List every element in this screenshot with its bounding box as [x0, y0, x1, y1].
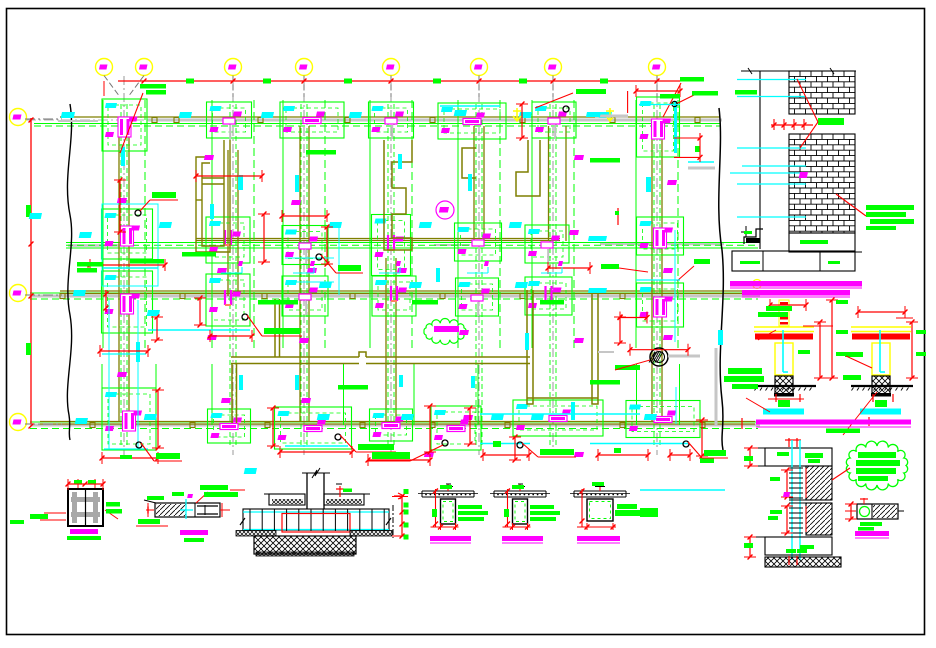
row grid green lines — [30, 124, 758, 429]
footing A-2 — [102, 209, 153, 259]
footing B-1 — [207, 102, 252, 139]
cyan wide bars right of axis F — [588, 236, 607, 293]
right break line wavy — [719, 108, 724, 450]
detail corte column title — [67, 529, 101, 540]
footing section ground hatch strips — [236, 531, 392, 537]
cyan text marks scattered — [29, 110, 657, 474]
beam detail V-P — [570, 482, 658, 530]
footing C-4 — [275, 407, 352, 449]
detail corte column green texts — [10, 502, 122, 524]
detail corte column red dims — [40, 479, 118, 520]
cyan horizontal lines in plan — [103, 106, 725, 490]
stirrup marks below row2 columns — [221, 261, 563, 273]
footing F-1 — [532, 102, 576, 139]
brick block upper — [789, 71, 855, 114]
footing B-4 — [208, 409, 251, 443]
beam detail V-P title — [577, 536, 620, 543]
row wall olive lines — [40, 117, 755, 424]
cimiento A green texts — [724, 300, 848, 389]
footing A-4 — [102, 388, 156, 450]
corte crosshatch strip — [765, 557, 841, 567]
cimiento B leader to stem — [846, 356, 872, 368]
brick right green text block — [866, 205, 914, 230]
footing D-1 — [369, 102, 414, 139]
detail beam green texts — [138, 485, 238, 524]
yellow anchor marks — [513, 108, 614, 121]
corte wall divider lines — [765, 466, 832, 503]
green bar left of corte title — [149, 496, 164, 500]
footing section right red dim — [392, 494, 408, 538]
footing C-2 — [282, 226, 328, 265]
brick block lower — [789, 134, 855, 233]
footing section beam red tick — [336, 484, 352, 497]
brick footing step left — [741, 226, 763, 244]
wall channel between rows 1-2 at axis F — [516, 140, 540, 196]
footing E-1 — [438, 103, 506, 139]
grey segment and cyan bar near row1 right — [586, 112, 715, 168]
footing E-4 — [431, 406, 481, 450]
revision cloud with label in plan — [424, 319, 466, 345]
column wall olive vertical lines — [119, 126, 662, 422]
corte ladder reinforcement — [789, 440, 803, 560]
corte red dims left — [744, 446, 806, 560]
footing G-4 — [626, 401, 700, 438]
cimiento B green texts — [843, 330, 926, 380]
corte hatched block upper — [806, 466, 832, 500]
corte bottom slab — [748, 537, 832, 555]
footing B-3f — [206, 274, 250, 326]
brick base slab — [732, 251, 862, 271]
brick detail title line2 — [742, 290, 850, 297]
wall channel between rows 1-2 at axis E — [462, 148, 476, 178]
column symbol donut — [649, 348, 700, 366]
footing section left beam — [264, 494, 305, 505]
detail beam horizontal — [144, 494, 220, 519]
footing E-3 — [456, 278, 499, 316]
brick detail title line1 — [730, 280, 862, 289]
cimiento detail B — [851, 327, 913, 415]
green text bars scattered in plan — [77, 77, 757, 390]
footing B-2 — [206, 217, 250, 263]
olive wall end caps on row lines — [60, 118, 705, 428]
left break line wavy — [67, 104, 71, 440]
wall channel between rows 1-2 at axis B — [196, 140, 230, 252]
brick cyan leader lines — [730, 80, 806, 218]
corte-2 small detail — [845, 498, 904, 531]
cyan and grey marks left of row1 — [58, 112, 98, 121]
beam detail V-A — [418, 484, 488, 530]
cimiento title long magenta — [756, 420, 911, 434]
footing A-1 — [102, 99, 147, 151]
footing section footing block — [254, 536, 356, 556]
footing A-3 — [102, 271, 153, 333]
footing D-4 — [370, 409, 413, 441]
cloud leader red — [832, 468, 850, 480]
detail corte column square — [68, 489, 103, 526]
column axis green lines — [103, 100, 678, 445]
red dims right side row1 — [516, 83, 702, 162]
detail beam red dims — [136, 490, 245, 526]
magenta mark on brick — [799, 172, 808, 178]
footing C-1 — [280, 102, 344, 138]
green verticals rows3-4 gap — [102, 364, 680, 425]
footing E-2 — [455, 223, 502, 261]
top red dimension line — [104, 79, 680, 97]
footing G-2 — [637, 217, 684, 255]
red arrow left of V-A — [394, 493, 404, 499]
corte-2 magenta title — [855, 531, 889, 538]
revision cloud bottom right — [846, 441, 907, 490]
detail beam title — [180, 530, 208, 542]
cimiento B red dims — [843, 306, 918, 435]
footing G-3 — [637, 283, 684, 327]
beam detail V-A2 title — [502, 536, 543, 543]
cyan vertical strips — [121, 101, 723, 420]
magenta circle label B-3 — [436, 201, 454, 219]
grid bubbles left — [10, 109, 63, 431]
brick base strip — [789, 233, 855, 252]
cimiento A red leader — [758, 330, 776, 340]
footing section right green squares — [404, 489, 409, 540]
beam detail V-A title — [430, 536, 471, 543]
cimiento detail A — [754, 300, 816, 415]
row grid lines grey — [26, 120, 760, 425]
brick red leaders — [797, 79, 866, 216]
grey partition lines right bottom — [598, 348, 716, 426]
red dims near column G row3 — [601, 230, 710, 424]
footing section slab — [240, 505, 393, 538]
interior wall below row 3 horizontal — [231, 299, 530, 423]
interior wall right region rectangle — [527, 290, 598, 404]
magenta text marks scattered in plan — [117, 155, 677, 457]
corte wall top slab — [748, 448, 832, 466]
corte magenta small mark — [783, 492, 790, 497]
corte red top ticks — [785, 438, 801, 447]
cyan lines near axis C row2 — [285, 226, 339, 295]
beam detail V-A2 — [490, 484, 560, 530]
footing section column — [302, 468, 330, 509]
footing G-1 — [637, 97, 680, 157]
column grid centerlines — [124, 76, 657, 455]
brick wall detail left line — [741, 68, 856, 249]
brick detail red dim marks — [771, 119, 813, 130]
footing D-3 — [372, 276, 416, 316]
red dims around footings — [88, 170, 593, 342]
corte bottom red ticks — [786, 549, 807, 565]
green mortar bar — [818, 118, 844, 125]
footing F-2 — [525, 225, 569, 263]
red tick near F-2 top right — [615, 208, 619, 225]
footing section right beam — [324, 494, 370, 505]
footing F-3 — [525, 277, 572, 315]
left red dimension line — [26, 118, 33, 429]
cyan outline around axis A — [102, 204, 158, 286]
footing C-3 — [282, 276, 328, 316]
cimiento A red dims — [746, 298, 838, 412]
footing D-2 — [372, 215, 411, 276]
footing section red outline — [282, 514, 350, 533]
footing F-4 — [513, 400, 603, 436]
red leaders with donuts — [120, 89, 728, 461]
wall channel between rows 1-2 at axis D — [384, 140, 412, 250]
red dims row4 area — [98, 290, 714, 466]
corte hatched block lower — [806, 503, 832, 535]
grid bubbles top — [96, 59, 666, 98]
